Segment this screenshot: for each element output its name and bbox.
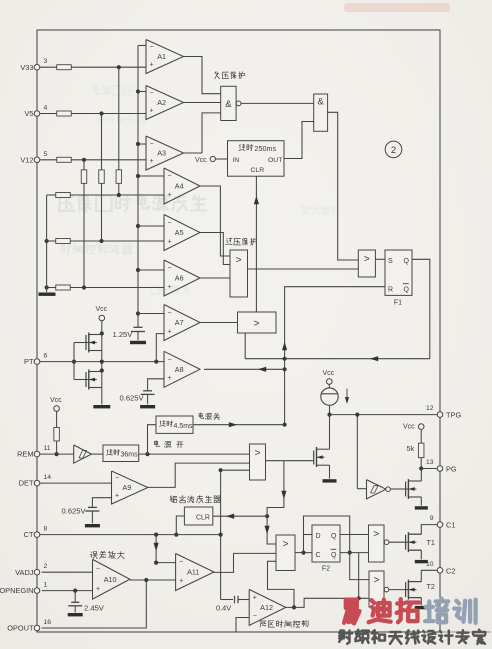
svg-text:A12: A12 xyxy=(260,603,273,612)
svg-text:A4: A4 xyxy=(175,182,184,191)
svg-text:V33: V33 xyxy=(20,63,33,72)
Vcc terminal PT xyxy=(99,315,105,321)
svg-text:5k: 5k xyxy=(407,444,415,453)
transistor M3 xyxy=(313,451,315,465)
wire PT to A7+ xyxy=(156,334,164,362)
svg-text:Vcc: Vcc xyxy=(96,306,108,313)
ground 1.25V xyxy=(130,341,146,344)
pin 13 PG xyxy=(437,466,443,472)
wire A8+ ref xyxy=(148,379,164,390)
wire source to M3 xyxy=(329,415,331,445)
op-amp A2 xyxy=(146,86,184,120)
resistor R8 xyxy=(56,239,71,244)
svg-text:−: − xyxy=(168,310,172,317)
wire A4 out xyxy=(200,186,230,256)
top-right pink smudge xyxy=(344,3,450,12)
node V33 junction xyxy=(117,65,121,69)
svg-text:A2: A2 xyxy=(157,98,166,107)
wire row3 to A6+ xyxy=(70,287,164,289)
wire row2 to A5+ xyxy=(70,240,164,242)
svg-text:&: & xyxy=(317,97,324,108)
node TPG/inverter tap xyxy=(355,413,359,417)
wire 5k to PG xyxy=(420,458,422,469)
svg-text:0.625V: 0.625V xyxy=(120,394,145,403)
current source I1 xyxy=(321,388,338,405)
wire M4 source xyxy=(420,497,422,506)
svg-text:C1: C1 xyxy=(446,521,455,530)
node row3/R6 xyxy=(82,285,86,289)
svg-text:CLR: CLR xyxy=(196,515,210,522)
svg-text:3: 3 xyxy=(44,58,48,65)
wire VADJ line xyxy=(42,571,93,573)
svg-text:CLR: CLR xyxy=(251,167,265,174)
svg-text:5: 5 xyxy=(44,151,48,158)
svg-text:−: − xyxy=(96,566,100,573)
svg-text:S: S xyxy=(388,258,393,265)
arrow power-off xyxy=(229,422,237,427)
wire A8 out to R column xyxy=(204,368,285,370)
svg-text:12: 12 xyxy=(426,405,434,412)
wire Qbar to U8 xyxy=(350,553,369,580)
op-amp A3 xyxy=(146,136,184,170)
node bus/A5- xyxy=(136,224,140,228)
node row3 left xyxy=(45,285,49,289)
wire row1 to A4+ xyxy=(70,194,164,196)
ground divider xyxy=(39,293,56,296)
node CT/A11 tap xyxy=(154,533,158,537)
node row2/R5 xyxy=(99,239,103,243)
delay 250ms box xyxy=(228,141,285,177)
wire B2 to M4 gate xyxy=(390,488,405,490)
svg-text:D: D xyxy=(316,533,321,540)
svg-text:−: − xyxy=(168,220,172,227)
wire row3 xyxy=(47,287,56,289)
wire V12 column xyxy=(83,160,85,170)
svg-text:IN: IN xyxy=(233,157,240,164)
svg-text:>: > xyxy=(283,539,289,550)
svg-text:0.4V: 0.4V xyxy=(216,604,231,613)
wire Qbar to rail xyxy=(358,553,360,599)
ground M4 xyxy=(415,506,428,509)
wire U4 to S xyxy=(375,258,385,260)
wire bus to A2- xyxy=(138,91,146,93)
driver U8 bubble xyxy=(384,587,389,592)
node A8 tie xyxy=(283,367,287,371)
node bus/A4- xyxy=(136,174,140,178)
pin 16 OPOUT xyxy=(34,625,40,631)
svg-text:CT: CT xyxy=(24,530,34,539)
op-amp A8 xyxy=(164,351,200,387)
wire tap to delay4.5 xyxy=(148,425,157,454)
transistor T2 xyxy=(406,589,409,591)
wire bus to A1- xyxy=(138,45,146,47)
wire CLR to CT xyxy=(176,516,184,535)
label delay 250ms xyxy=(239,144,245,150)
watermark red text xyxy=(344,600,359,624)
Vcc terminal source xyxy=(327,379,333,385)
CLR box sawtooth xyxy=(184,507,212,525)
bottom border extension xyxy=(440,631,491,633)
wire CT to A11- xyxy=(156,535,176,563)
wire R10 to REM xyxy=(56,441,58,454)
wire inverter feed xyxy=(356,415,358,489)
wire A11 out xyxy=(214,553,276,572)
wire A7 out xyxy=(200,322,238,324)
node TPG source xyxy=(327,413,331,417)
label power-on xyxy=(155,441,160,447)
svg-text:A5: A5 xyxy=(175,228,184,237)
wire R4 to row1 xyxy=(118,183,120,195)
ground T1 xyxy=(415,560,428,563)
svg-text:OPNEGIN: OPNEGIN xyxy=(0,586,34,595)
wire minus bus xyxy=(137,46,139,328)
label undervoltage protection xyxy=(215,72,220,79)
node clear junction xyxy=(265,514,269,518)
wire power-on line xyxy=(139,453,250,455)
wire V5 column xyxy=(101,114,103,171)
ground 2.45V xyxy=(68,613,83,616)
wire Vcc to R10 xyxy=(56,411,58,427)
node U6/D-loop xyxy=(301,551,305,555)
node V12 junction xyxy=(82,158,86,162)
svg-text:A8: A8 xyxy=(175,365,184,374)
svg-text:−: − xyxy=(168,173,172,180)
OR gate U4 xyxy=(358,250,375,277)
svg-text:OPOUT: OPOUT xyxy=(7,624,34,633)
svg-text:8: 8 xyxy=(44,526,48,533)
wire sawtooth to 0.4V cap xyxy=(221,599,233,601)
wire D stub xyxy=(304,534,313,536)
op-amp A5 xyxy=(164,215,200,251)
wire A6 out xyxy=(200,277,230,279)
wire V33 to A1+ xyxy=(71,66,146,68)
IC boundary box xyxy=(37,30,440,632)
arrow clear down xyxy=(281,491,286,499)
svg-text:+: + xyxy=(179,578,183,585)
reference 1.25V capacitor xyxy=(134,326,143,328)
transistor M1 xyxy=(86,342,89,344)
driver U7 xyxy=(369,525,385,562)
node power-off/R column xyxy=(283,423,287,427)
svg-text:VADJ: VADJ xyxy=(15,568,34,577)
svg-text:−: − xyxy=(115,475,119,482)
wire bus to A6- xyxy=(138,269,164,271)
svg-text:Vcc: Vcc xyxy=(403,424,415,431)
node CT sawtooth tap xyxy=(219,468,223,472)
op-amp A10 xyxy=(93,559,130,599)
svg-text:TPG: TPG xyxy=(446,411,461,420)
svg-text:36ms: 36ms xyxy=(121,452,139,459)
node bus/A2- xyxy=(136,89,140,93)
wire Vcc PT column xyxy=(101,321,103,405)
AND gate U2 xyxy=(314,94,328,131)
op-amp A9 xyxy=(112,471,148,504)
svg-text:>: > xyxy=(373,529,379,540)
pin 3 V33 xyxy=(34,64,40,70)
ground T2 xyxy=(415,606,428,609)
svg-text:REM: REM xyxy=(17,450,33,459)
wire CLR down xyxy=(255,176,257,312)
svg-text:+: + xyxy=(168,284,172,291)
pin 9 C1 xyxy=(437,522,443,528)
wire U5 to clear path xyxy=(267,461,284,517)
svg-text:11: 11 xyxy=(44,445,51,452)
wire A12 out branch xyxy=(268,561,295,607)
arrow A8 out xyxy=(258,367,266,372)
flip-flop F1 xyxy=(385,250,412,295)
op-amp A6 xyxy=(164,260,200,296)
wire clear to CLR box xyxy=(213,515,267,517)
wire U8 to T2 gate xyxy=(389,589,406,591)
node delay4.5 tap xyxy=(145,452,149,456)
wire divider left column xyxy=(46,195,48,292)
wire REM line xyxy=(40,453,74,455)
svg-text:+: + xyxy=(150,108,154,115)
svg-text:V12: V12 xyxy=(20,155,33,164)
pin 14 DET xyxy=(34,480,40,486)
svg-text:16: 16 xyxy=(44,619,52,626)
U1 output bubble xyxy=(236,101,241,106)
driver U8 xyxy=(369,571,384,607)
figure label 2 xyxy=(385,141,402,158)
flip-flop F2 xyxy=(312,525,340,562)
svg-text:Q: Q xyxy=(404,287,410,294)
delay 36ms box xyxy=(103,445,139,462)
wire A9+ ref xyxy=(92,498,111,507)
node CLR/CT xyxy=(174,533,178,537)
resistor R1 xyxy=(57,65,72,70)
wire sawtooth column xyxy=(220,470,222,599)
pin 10 C2 xyxy=(437,568,443,574)
wire V33 column xyxy=(118,67,120,170)
svg-text:+: + xyxy=(150,158,154,165)
svg-text:4.5ms: 4.5ms xyxy=(174,423,194,430)
wire Vcc to 5k xyxy=(420,429,422,443)
arrow R-net left xyxy=(370,356,378,361)
svg-text:C: C xyxy=(316,552,321,559)
node PT/column xyxy=(100,360,104,364)
wire M4 drain xyxy=(420,469,422,482)
svg-text:A11: A11 xyxy=(187,568,199,577)
wire U3 out down xyxy=(244,333,246,359)
node M1 drain xyxy=(100,331,104,335)
label overvoltage protection xyxy=(226,238,233,245)
label dead time control xyxy=(260,621,267,627)
watermark blue text xyxy=(425,599,448,623)
driver U7 bubble xyxy=(384,540,389,545)
wire T1 source xyxy=(420,550,422,559)
op-amp A1 xyxy=(146,40,184,74)
resistor R6 xyxy=(81,170,87,184)
svg-text:+: + xyxy=(168,192,172,199)
wire bus to A5- xyxy=(138,225,164,227)
wire U5 out xyxy=(266,460,314,462)
wire TPG line xyxy=(330,414,438,416)
svg-text:DET: DET xyxy=(19,479,34,488)
wire PG line xyxy=(421,468,437,470)
svg-text:2: 2 xyxy=(391,145,396,156)
pin 1 OPNEGIN xyxy=(34,588,40,594)
svg-text:>: > xyxy=(374,575,380,586)
wire Q to U7 xyxy=(340,534,369,536)
svg-text:Vcc: Vcc xyxy=(50,397,62,404)
node bus/A7- xyxy=(136,311,140,315)
arrow into CLR xyxy=(226,514,234,519)
svg-text:F2: F2 xyxy=(322,566,330,573)
inverter B2 xyxy=(357,488,366,490)
wire U2 out xyxy=(328,112,359,260)
wire power-off line xyxy=(193,424,285,426)
reference 2.45V capacitor xyxy=(71,601,79,603)
wire CT line xyxy=(40,534,221,536)
OR gate overvoltage xyxy=(230,250,248,297)
svg-text:250ms: 250ms xyxy=(255,144,277,153)
svg-text:>: > xyxy=(254,319,260,330)
resistor R5 xyxy=(99,170,105,184)
arrow current direction xyxy=(346,389,348,400)
svg-text:T2: T2 xyxy=(427,582,435,591)
wire source to node xyxy=(329,405,331,414)
svg-text:&: & xyxy=(225,99,232,110)
wire A3 out xyxy=(184,113,221,153)
node PT/A7 tap xyxy=(154,360,158,364)
wire A1 out xyxy=(184,57,221,94)
delay 4.5ms box xyxy=(156,416,193,433)
wire A12 to drivers xyxy=(294,598,369,607)
wire R5 to row2 xyxy=(101,183,103,241)
node V5 junction xyxy=(99,111,103,115)
wire D feedback loop xyxy=(304,516,350,553)
svg-text:PG: PG xyxy=(446,465,457,474)
node R-net/R-column xyxy=(283,357,287,361)
wire V5 to A2+ xyxy=(71,113,146,115)
op-amp A7 xyxy=(164,305,200,341)
AND gate U1 xyxy=(221,86,236,120)
pin 11 REM xyxy=(34,451,40,457)
wire V33 to R1 xyxy=(40,66,57,68)
wire PT gates xyxy=(73,343,75,380)
node Qbar/loop xyxy=(348,551,352,555)
wire V12 to R3 xyxy=(40,159,57,161)
svg-text:+: + xyxy=(115,492,119,499)
page bleed-through ghost text xyxy=(59,85,340,294)
svg-text:9: 9 xyxy=(430,515,434,522)
capacitor 0.4V xyxy=(234,596,236,603)
resistor R4 xyxy=(116,170,122,184)
wire clear to U6 xyxy=(267,516,276,544)
pin 12 TPG xyxy=(437,412,443,418)
arrow CLR up xyxy=(254,196,259,204)
OR gate U5 xyxy=(250,444,266,480)
svg-text:Vcc: Vcc xyxy=(323,370,335,377)
wire row2 xyxy=(47,240,56,242)
svg-text:1: 1 xyxy=(44,582,48,589)
wire V5 to R2 xyxy=(40,113,57,115)
Vcc terminal delay xyxy=(210,156,215,161)
node 2.45V tap xyxy=(73,589,77,593)
wire bus to A4- xyxy=(138,175,164,177)
pin 8 CT xyxy=(34,532,40,538)
wire Qbar line xyxy=(340,552,369,554)
wire Vcc to source xyxy=(328,384,330,388)
wire T2 drain to C2 xyxy=(421,570,437,581)
svg-text:−: − xyxy=(150,90,154,97)
wire OPNEGIN line xyxy=(42,590,93,592)
svg-text:−: − xyxy=(168,356,172,363)
svg-text:6: 6 xyxy=(44,353,48,360)
node M2 drain xyxy=(100,368,104,372)
op-amp A4 xyxy=(164,168,200,204)
wire R input xyxy=(285,287,385,425)
svg-text:F1: F1 xyxy=(394,300,402,307)
op-amp A12 xyxy=(249,589,286,625)
ground PT column xyxy=(93,405,110,408)
Vcc terminal PG xyxy=(418,424,424,430)
wire tap to 2.45V xyxy=(74,591,76,602)
svg-text:0.625V: 0.625V xyxy=(62,507,87,516)
wire PT line xyxy=(40,361,164,363)
arrow CT down xyxy=(153,543,158,551)
node A11- corner xyxy=(154,561,158,565)
OR gate U6 xyxy=(276,535,295,571)
svg-text:−: − xyxy=(179,559,183,566)
wire Vcc to IN xyxy=(215,158,227,160)
wire B1 to delay36 xyxy=(92,453,104,455)
node row2 left xyxy=(45,239,49,243)
node CT/sawtooth column xyxy=(219,533,223,537)
node REM junction xyxy=(55,452,59,456)
wire bus to A3- xyxy=(138,143,146,145)
label power-off xyxy=(199,413,204,419)
wire OVP out to S-gate xyxy=(248,268,359,270)
node PT gate xyxy=(72,360,76,364)
svg-text:+: + xyxy=(253,594,257,601)
node bus/A3- xyxy=(136,142,140,146)
resistor R2 xyxy=(57,111,72,116)
svg-text:−: − xyxy=(150,141,154,148)
ground 0.625V A8 xyxy=(140,405,155,408)
transistor M2 xyxy=(86,379,89,381)
wire cap to A12+ xyxy=(238,599,249,601)
svg-text:A10: A10 xyxy=(104,575,117,584)
svg-text:Vcc: Vcc xyxy=(195,157,207,164)
node A10 out xyxy=(144,578,148,582)
svg-text:Q: Q xyxy=(331,552,337,559)
svg-text:T1: T1 xyxy=(427,538,435,547)
svg-text:>: > xyxy=(255,448,261,459)
wire U7 to T1 gate xyxy=(389,541,406,543)
wire row1 xyxy=(47,194,56,196)
svg-text:14: 14 xyxy=(44,474,52,481)
wire R-net horizontal xyxy=(245,358,430,360)
resistor R11 5k xyxy=(418,443,424,458)
resistor R3 xyxy=(57,157,72,162)
wire V12 to A3+ xyxy=(71,159,146,161)
svg-text:+: + xyxy=(168,328,172,335)
node driver rail xyxy=(357,596,361,600)
resistor R10 xyxy=(54,427,60,441)
svg-text:+: + xyxy=(96,586,100,593)
svg-text:A3: A3 xyxy=(157,149,166,158)
svg-text:2: 2 xyxy=(44,563,48,570)
pin 6 PT xyxy=(34,359,40,365)
svg-text:+: + xyxy=(168,238,172,245)
wire bus to A7- xyxy=(138,313,164,315)
wire T2 source xyxy=(420,598,422,606)
svg-text:V5: V5 xyxy=(24,109,33,118)
label sawtooth generator xyxy=(170,496,177,503)
buffer B1 xyxy=(74,445,92,463)
